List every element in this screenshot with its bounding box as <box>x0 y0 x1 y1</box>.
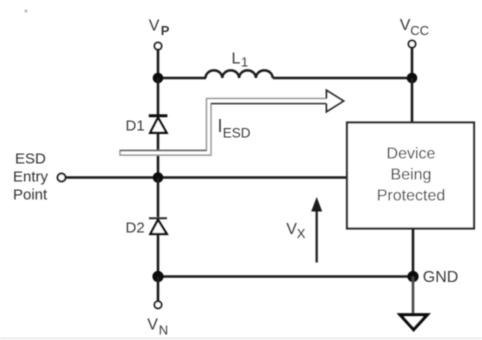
wire: D1 to ESD node <box>157 133 160 178</box>
svg-text:ESD: ESD <box>15 151 46 168</box>
ground symbol <box>400 315 427 330</box>
terminal VCC <box>408 40 415 47</box>
wire: VCC down to top rail <box>411 48 414 78</box>
svg-text:V: V <box>147 317 158 334</box>
svg-text:L: L <box>232 51 241 68</box>
svg-text:P: P <box>161 23 170 38</box>
device box <box>347 123 474 229</box>
junction node VN rail <box>152 271 163 282</box>
svg-text:1: 1 <box>241 55 248 70</box>
wire: GND node down to ground symbol <box>412 277 415 315</box>
terminal ESD entry point <box>58 174 66 182</box>
wire: VP down to top rail <box>157 50 160 78</box>
voltage arrow VX <box>311 197 322 263</box>
junction node VP rail <box>153 73 164 84</box>
svg-text:Entry: Entry <box>13 169 49 186</box>
junction node GND <box>407 271 418 282</box>
junction node VCC rail <box>407 73 418 84</box>
svg-text:Being: Being <box>391 167 432 184</box>
svg-text:V: V <box>400 17 411 34</box>
wire: down to VN terminal <box>157 277 160 302</box>
diode D1 <box>149 116 168 133</box>
inductor L1 <box>206 70 273 78</box>
svg-text:Device: Device <box>387 146 436 163</box>
wire: entry point to device box <box>66 176 347 179</box>
svg-text:D1: D1 <box>126 118 145 135</box>
junction node ESD/left column <box>153 172 164 183</box>
wire: D2 to bottom rail <box>157 234 160 276</box>
wire: VCC node down to device box <box>411 78 414 123</box>
svg-text:CC: CC <box>410 23 429 38</box>
svg-text:X: X <box>297 226 306 241</box>
wire: left column VP node to D1 <box>157 78 160 115</box>
terminal VN <box>154 301 161 308</box>
svg-text:ESD: ESD <box>223 125 251 140</box>
bottom edge smudge artifact <box>0 338 482 340</box>
ESD current arrow (hollow stepped arrow) <box>120 90 344 155</box>
wire: ESD node down to D2 <box>157 178 160 218</box>
speck artifact top-left <box>25 10 28 13</box>
svg-text:V: V <box>149 18 160 35</box>
svg-text:D2: D2 <box>126 220 145 237</box>
wire: top rail right segment (L1 to VCC node) <box>273 77 412 80</box>
diode D2 <box>149 218 167 234</box>
svg-text:I: I <box>218 116 223 136</box>
svg-text:Protected: Protected <box>377 188 445 205</box>
wire: device box bottom to GND node <box>412 229 415 277</box>
terminal VP <box>154 42 161 49</box>
svg-text:GND: GND <box>423 269 459 286</box>
svg-text:N: N <box>159 323 168 338</box>
svg-text:V: V <box>286 221 297 238</box>
svg-text:Point: Point <box>13 187 48 204</box>
wire: top rail left segment (VP node to L1) <box>158 77 206 80</box>
wire: bottom rail <box>158 275 413 278</box>
